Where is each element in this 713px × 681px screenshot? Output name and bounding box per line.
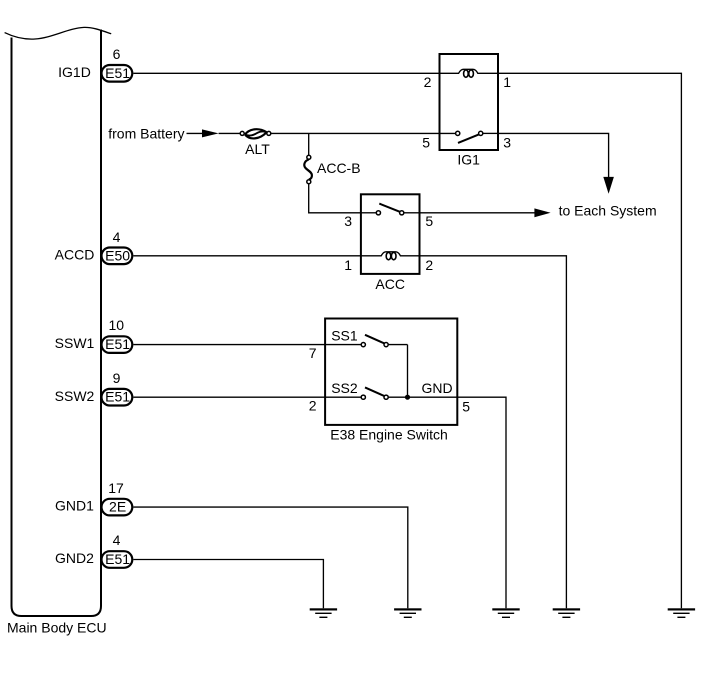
wire E38 pin 5 to ground [457, 397, 506, 608]
ECU box (Main Body ECU outline with break wave at top) [5, 27, 112, 616]
switch SS2 [325, 380, 457, 399]
wire ALT to IG1 pin 5 [271, 132, 440, 134]
wire ACC pin 5 to each-system arrow [420, 212, 536, 214]
wire arrow to ALT fuse [219, 132, 241, 134]
node GND (E38 internal) [405, 380, 453, 400]
svg-text:ACC: ACC [375, 276, 405, 292]
connector E50 (ACCD) [102, 247, 133, 264]
svg-text:5: 5 [462, 398, 470, 414]
svg-text:10: 10 [109, 317, 125, 333]
svg-text:4: 4 [113, 532, 121, 548]
svg-text:9: 9 [113, 370, 121, 386]
ground (ACC pin 2) [553, 608, 580, 618]
svg-text:E38 Engine Switch: E38 Engine Switch [330, 427, 448, 443]
svg-text:E51: E51 [105, 389, 130, 405]
fusible link ALT [240, 129, 271, 138]
svg-text:SS2: SS2 [331, 380, 358, 396]
svg-text:E51: E51 [105, 65, 130, 81]
svg-text:2: 2 [309, 397, 317, 413]
relay IG1 [440, 54, 499, 150]
relay ACC [361, 194, 420, 274]
arrow down (to each system) [603, 177, 614, 194]
wire IG1 pin 3 to down arrow [498, 133, 609, 178]
svg-text:5: 5 [422, 135, 430, 151]
svg-text:5: 5 [425, 213, 433, 229]
connector E51 (SSW2) [102, 389, 133, 406]
svg-text:6: 6 [113, 46, 121, 62]
wire GND1 to ground [133, 507, 407, 608]
svg-text:4: 4 [113, 229, 121, 245]
svg-text:ACCD: ACCD [55, 246, 95, 262]
coil [440, 69, 499, 73]
svg-text:E51: E51 [105, 336, 130, 352]
arrow (battery feed) [202, 129, 219, 137]
switch contacts [440, 132, 456, 134]
svg-text:2: 2 [425, 257, 433, 273]
svg-text:from Battery: from Battery [108, 125, 184, 141]
wire GND2 to ground [133, 560, 323, 609]
coil [361, 252, 420, 256]
svg-text:1: 1 [344, 257, 352, 273]
svg-text:SS1: SS1 [331, 328, 358, 344]
wire SSW2 to E38 pin 2 [133, 396, 325, 398]
wire from-battery stub [187, 132, 204, 134]
svg-text:2: 2 [424, 74, 432, 90]
svg-text:E51: E51 [105, 551, 130, 567]
wire junction drop to ACC-B [308, 133, 310, 155]
svg-text:Main Body ECU: Main Body ECU [7, 620, 107, 636]
svg-text:GND2: GND2 [55, 550, 94, 566]
wire IG1D to IG1 pin 2 [133, 72, 439, 74]
svg-text:ALT: ALT [245, 141, 270, 157]
ground (GND2) [310, 608, 337, 618]
connector E51 (GND2) [102, 551, 133, 568]
wire SS1 branch down to GND node [407, 345, 409, 398]
connector 2E (GND1) [102, 499, 133, 516]
wire ACCD to ACC pin 1 [133, 255, 361, 257]
svg-text:IG1: IG1 [457, 151, 480, 167]
ground (IG1 pin 1) [668, 608, 695, 618]
switch contacts [361, 212, 376, 214]
svg-text:E50: E50 [105, 247, 130, 263]
svg-text:to Each System: to Each System [559, 202, 657, 218]
arrow (to Each System) [534, 208, 550, 217]
svg-text:7: 7 [309, 345, 317, 361]
svg-text:GND1: GND1 [55, 498, 94, 514]
wire IG1 pin 1 to ground [498, 73, 681, 608]
wire ACC pin 2 to ground [420, 256, 567, 609]
svg-text:2E: 2E [109, 499, 126, 515]
connector E51 (SSW1) [102, 336, 133, 353]
svg-text:GND: GND [422, 380, 453, 396]
ground (GND1) [394, 608, 421, 618]
svg-text:1: 1 [503, 74, 511, 90]
switch E38 Engine Switch box [325, 319, 457, 425]
svg-text:SSW1: SSW1 [55, 335, 95, 351]
svg-text:SSW2: SSW2 [55, 388, 95, 404]
svg-text:17: 17 [108, 480, 124, 496]
svg-text:ACC-B: ACC-B [317, 160, 361, 176]
svg-text:3: 3 [344, 213, 352, 229]
svg-text:IG1D: IG1D [58, 64, 91, 80]
svg-text:3: 3 [503, 135, 511, 151]
ground (E38 pin 5) [492, 608, 519, 618]
wire SSW1 to E38 pin 7 [133, 344, 325, 346]
fuse ACC-B [304, 155, 312, 183]
switch SS1 [325, 328, 407, 347]
wire ACC-B to ACC pin 3 [309, 184, 361, 213]
connector E51 (IG1D) [102, 65, 133, 82]
